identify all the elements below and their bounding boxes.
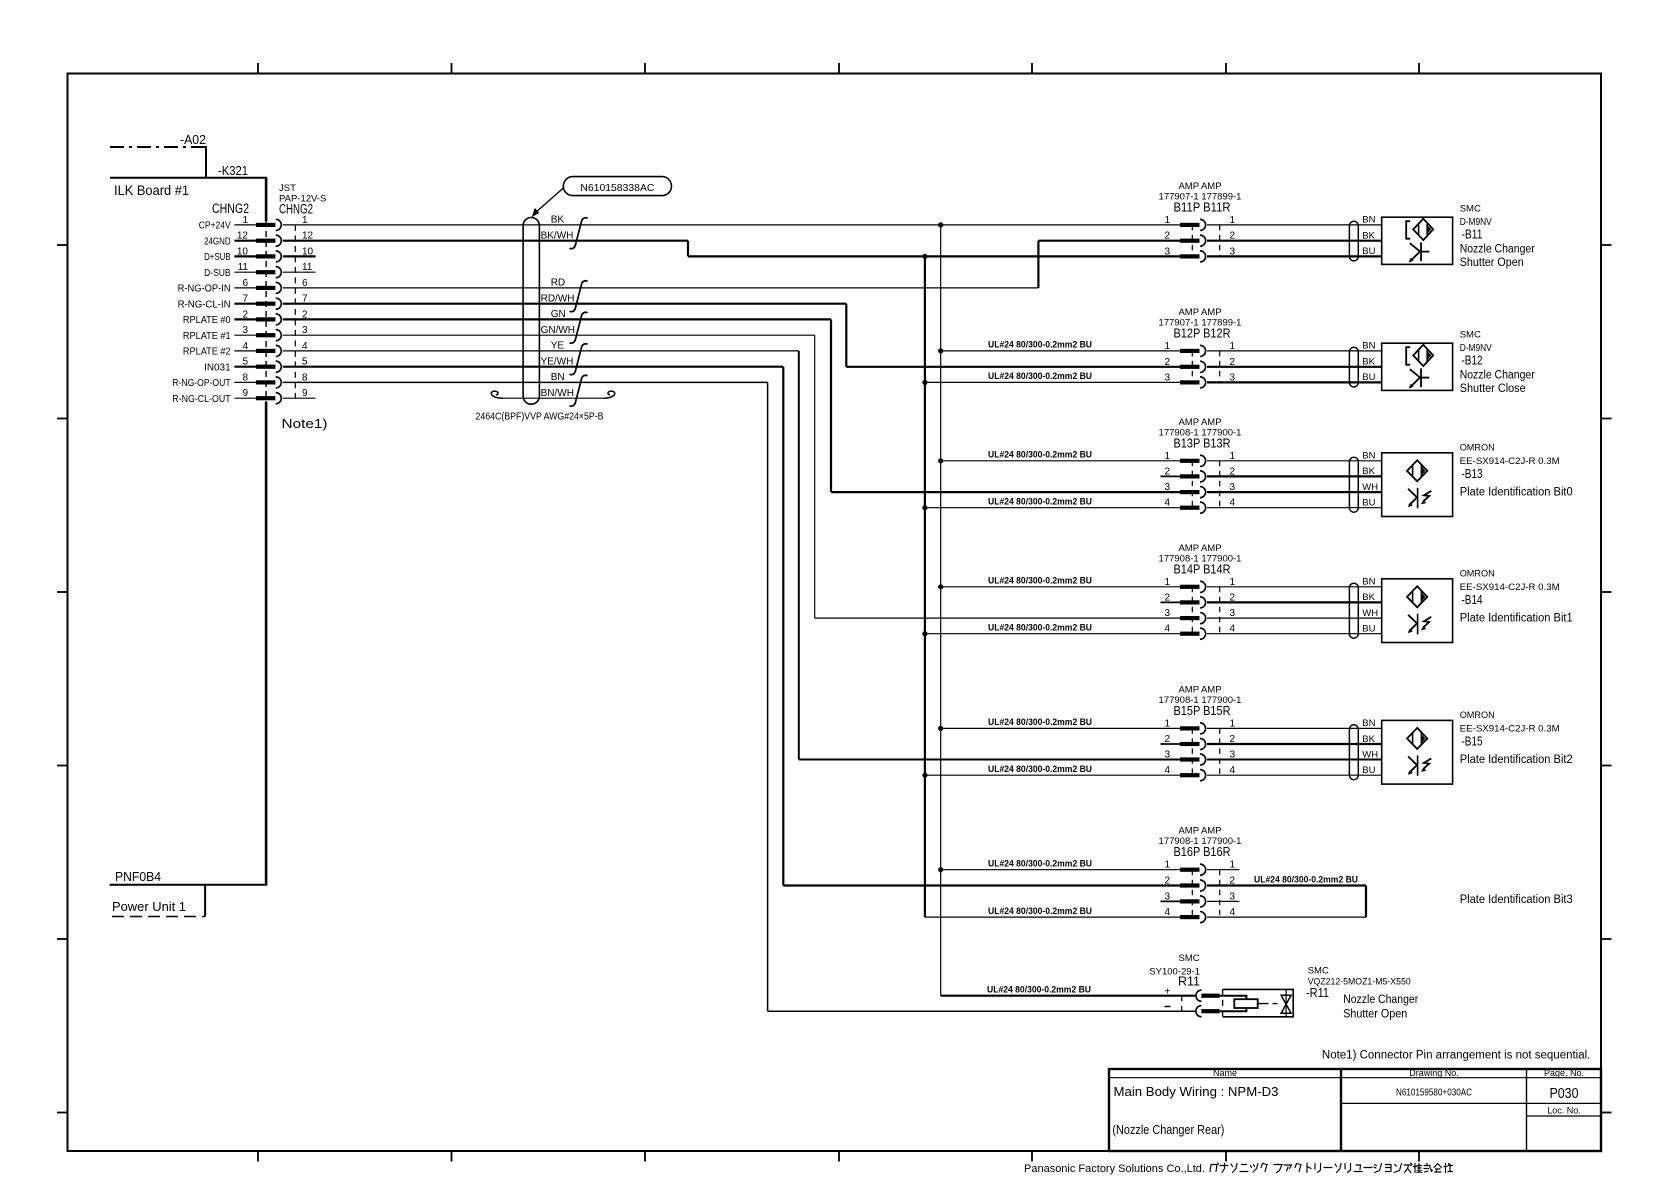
svg-text:Nozzle Changer: Nozzle Changer xyxy=(1343,994,1418,1006)
connector B12P/B12R pin 3 xyxy=(1164,372,1235,388)
svg-text:4: 4 xyxy=(1230,765,1236,776)
svg-text:1: 1 xyxy=(1230,451,1236,462)
junction dot bus 24GND to B13 pin4 xyxy=(922,505,927,510)
svg-text:6: 6 xyxy=(302,278,308,289)
svg-text:OMRON: OMRON xyxy=(1460,443,1495,454)
svg-text:1: 1 xyxy=(1230,718,1236,729)
connector B14P/B14R pin 4 xyxy=(1164,624,1235,640)
wire bus to B16 pin1 xyxy=(941,869,1180,871)
connector B14R R-side dashed mating line xyxy=(1219,587,1221,634)
wire bus to B13 pin4 xyxy=(925,507,1180,509)
svg-text:-B13: -B13 xyxy=(1462,467,1483,481)
connector B15R R-side dashed mating line xyxy=(1219,728,1221,775)
svg-text:AMP AMP: AMP AMP xyxy=(1178,181,1221,192)
svg-text:P030: P030 xyxy=(1550,1086,1579,1102)
svg-text:4: 4 xyxy=(302,341,308,352)
ILK board right edge (upper) xyxy=(265,178,268,221)
wire BN R-NG-OP-OUT row8 horizontal xyxy=(283,381,768,383)
connector B15P/B15R pin 4 xyxy=(1164,765,1235,781)
svg-text:BN: BN xyxy=(1362,577,1375,588)
svg-text:AMP AMP: AMP AMP xyxy=(1178,307,1221,318)
cable bubble leader arrow xyxy=(535,188,564,214)
svg-text:Name: Name xyxy=(1213,1068,1237,1078)
wire BN/WH unterminated cable segment xyxy=(502,397,604,399)
svg-text:2: 2 xyxy=(242,309,248,320)
junction dot bus CP+24V to B13 pin1 xyxy=(938,458,943,463)
sensor B14 photo sensor icon xyxy=(1407,586,1431,634)
wire -A02 to -K321 vertical xyxy=(205,146,207,178)
wire B14 pin4 to sensor xyxy=(1207,633,1382,635)
junction dot bus 24GND at B11 pin3 feed xyxy=(922,254,927,259)
svg-text:SMC: SMC xyxy=(1460,204,1481,215)
wire RD/WH to B12 pin2 xyxy=(846,366,1180,368)
valve R11 coil circuit path xyxy=(1220,996,1247,1012)
svg-text:2: 2 xyxy=(1164,876,1170,887)
connector B14P P-side dashed line xyxy=(1191,587,1193,634)
wire GN RPLATE #0 row2 horizontal xyxy=(283,318,831,320)
svg-text:10: 10 xyxy=(302,246,314,257)
sensor B13 photo sensor icon xyxy=(1407,460,1431,508)
svg-text:-R11: -R11 xyxy=(1306,986,1329,1000)
sensor B11 cable sheath capsule xyxy=(1349,221,1358,261)
wire YE to B15 pin3 xyxy=(799,759,1180,761)
connector B15P/B15R pin 2 xyxy=(1161,734,1236,750)
wire YE jog down to B15 pin3 level xyxy=(798,351,800,760)
svg-text:3: 3 xyxy=(1164,891,1170,902)
twisted pair mark RD pair xyxy=(570,281,588,312)
svg-text:4: 4 xyxy=(242,341,248,352)
wire YE/WH IN031 row5 horizontal xyxy=(283,366,784,368)
connector CHNG2 pin 7 (R-NG-CL-IN) xyxy=(178,294,308,311)
svg-text:WH: WH xyxy=(1362,749,1378,760)
connector B16P/B16R pin 1 xyxy=(1164,860,1235,876)
sensor B15 text block xyxy=(1460,710,1573,766)
twisted pair mark YE pair xyxy=(570,344,588,375)
svg-text:-K321: -K321 xyxy=(218,164,248,178)
svg-text:GN/WH: GN/WH xyxy=(541,325,575,336)
connector B14P header labels xyxy=(1159,543,1242,577)
connector B14P/B14R pin 2 xyxy=(1161,592,1236,608)
svg-text:10: 10 xyxy=(237,246,249,257)
ILK board edge dashed through connector CHNG2 xyxy=(265,221,267,402)
svg-text:-B12: -B12 xyxy=(1462,354,1483,368)
valve R11 valve bowtie symbol xyxy=(1281,995,1291,1013)
svg-text:UL#24 80/300-0.2mm2 BU: UL#24 80/300-0.2mm2 BU xyxy=(988,859,1092,870)
connector CHNG2 pin 11 (D-SUB) xyxy=(204,262,316,279)
valve R11 solenoid coil rectangle xyxy=(1234,999,1257,1008)
svg-text:7: 7 xyxy=(242,294,248,305)
svg-text:11: 11 xyxy=(302,262,313,273)
svg-text:4: 4 xyxy=(1164,624,1170,635)
svg-text:D-M9NV: D-M9NV xyxy=(1460,216,1492,228)
valve R11 connector header labels xyxy=(1149,953,1200,989)
valve R11 minus socket arc xyxy=(1196,1006,1202,1017)
svg-text:IN031: IN031 xyxy=(204,362,231,373)
svg-text:EE-SX914-C2J-R 0.3M: EE-SX914-C2J-R 0.3M xyxy=(1460,724,1560,735)
twisted pair mark GN pair xyxy=(570,312,588,343)
wire B15 pin3 to sensor xyxy=(1207,759,1382,761)
svg-text:4: 4 xyxy=(1164,498,1170,509)
svg-text:1: 1 xyxy=(1164,451,1170,462)
title block xyxy=(1109,1068,1601,1151)
ILK Board #1 top edge wire xyxy=(110,177,267,179)
wire BN jog down to R11 minus level xyxy=(767,382,769,1011)
sensor B13 text block xyxy=(1460,443,1573,499)
svg-text:3: 3 xyxy=(1164,246,1170,257)
wire bus to B13 pin1 xyxy=(941,460,1180,462)
connector B13P P-side dashed line xyxy=(1191,461,1193,508)
svg-text:JST: JST xyxy=(279,183,296,194)
sensor B15 body box xyxy=(1382,720,1453,784)
svg-text:CHNG2: CHNG2 xyxy=(279,202,313,217)
svg-text:SMC: SMC xyxy=(1178,953,1199,964)
svg-text:WH: WH xyxy=(1362,482,1378,493)
connector B15P header labels xyxy=(1159,684,1242,718)
valve R11 plus socket arc xyxy=(1196,990,1202,1001)
svg-text:BU: BU xyxy=(1362,624,1375,635)
connector CHNG2 pin 9 (R-NG-CL-OUT) xyxy=(172,388,315,405)
wire GN/WH jog down to B14 pin3 level xyxy=(814,335,816,618)
svg-text:BN: BN xyxy=(1362,215,1375,226)
connector B12P/B12R pin 1 xyxy=(1164,341,1235,357)
wire B12 pin1 to sensor xyxy=(1207,350,1382,352)
sensor B15 photo sensor icon xyxy=(1407,728,1431,776)
wire YE/WH jog down to B16 pin2 level xyxy=(782,367,784,886)
wire B14 pin1 to sensor xyxy=(1207,586,1382,588)
valve R11 plus pin bar xyxy=(1201,994,1219,998)
svg-text:BK: BK xyxy=(1362,231,1375,242)
wire B12 pin2 to sensor xyxy=(1207,366,1382,368)
svg-text:Plate Identification Bit2: Plate Identification Bit2 xyxy=(1460,754,1573,766)
svg-text:B15P B15R: B15P B15R xyxy=(1174,704,1231,718)
svg-text:BK: BK xyxy=(1362,734,1375,745)
svg-text:AMP AMP: AMP AMP xyxy=(1178,684,1221,695)
connector B13P/B13R pin 3 xyxy=(1164,482,1235,498)
wire GN/WH to B14 pin3 xyxy=(815,617,1180,619)
sensor B14 text block xyxy=(1460,569,1573,625)
wire B15 pin2 to sensor xyxy=(1207,743,1382,745)
connector B13P/B13R pin 4 xyxy=(1164,498,1235,514)
svg-text:+: + xyxy=(1165,987,1171,998)
valve R11 minus pin bar xyxy=(1201,1009,1219,1013)
wire B11 pin3 to sensor xyxy=(1207,255,1382,257)
svg-text:UL#24 80/300-0.2mm2 BU: UL#24 80/300-0.2mm2 BU xyxy=(988,717,1092,728)
wire YE RPLATE #2 row4 horizontal xyxy=(283,350,799,352)
svg-text:UL#24 80/300-0.2mm2 BU: UL#24 80/300-0.2mm2 BU xyxy=(988,450,1092,461)
wire bus to B12 pin1 xyxy=(941,350,1180,352)
svg-text:11: 11 xyxy=(238,262,249,273)
wire BK/WH 24GND row12 horizontal xyxy=(283,240,688,242)
valve R11 minus sign xyxy=(1165,1006,1171,1008)
svg-text:9: 9 xyxy=(242,388,248,399)
svg-text:UL#24 80/300-0.2mm2 BU: UL#24 80/300-0.2mm2 BU xyxy=(987,985,1091,996)
svg-text:AMP AMP: AMP AMP xyxy=(1178,543,1221,554)
svg-text:AMP AMP: AMP AMP xyxy=(1178,826,1221,837)
sensor B13 body box xyxy=(1382,453,1453,517)
valve R11 body box dashed left edge xyxy=(1222,989,1224,1016)
cable sheath capsule xyxy=(523,218,539,405)
svg-text:UL#24 80/300-0.2mm2 BU: UL#24 80/300-0.2mm2 BU xyxy=(988,576,1092,587)
wire GN/WH RPLATE #1 row3 horizontal xyxy=(283,334,815,336)
svg-text:24GND: 24GND xyxy=(204,236,231,247)
wire RD R-NG-OP-IN row6 horizontal xyxy=(283,287,1039,289)
wire RD/WH jog down to B12 pin2 level xyxy=(845,304,847,367)
valve R11 actuation dashed link xyxy=(1258,1003,1264,1005)
svg-text:-B11: -B11 xyxy=(1462,228,1483,242)
svg-text:2: 2 xyxy=(1164,231,1170,242)
wire bus to B15 pin1 xyxy=(941,727,1180,729)
valve R11 body box xyxy=(1223,989,1294,1016)
svg-text:Shutter Open: Shutter Open xyxy=(1460,257,1524,269)
svg-text:BN: BN xyxy=(551,372,565,383)
svg-text:1: 1 xyxy=(1164,341,1170,352)
svg-text:R11: R11 xyxy=(1178,975,1200,989)
svg-text:B12P B12R: B12P B12R xyxy=(1174,326,1231,340)
svg-text:R-NG-CL-OUT: R-NG-CL-OUT xyxy=(172,394,230,405)
wire RD jog up to B11 pin2 level xyxy=(1037,241,1039,288)
sensor B11 reed switch icon xyxy=(1406,219,1433,263)
connector CHNG2 pin 10 (D+SUB) xyxy=(204,246,316,263)
sensor B11 text block xyxy=(1460,204,1535,270)
sensor B13 cable sheath capsule xyxy=(1349,457,1358,512)
bus CP+24V corner to R11 plus xyxy=(941,995,1195,997)
connector CHNG2 pin 1 (CP+24V) xyxy=(199,215,308,232)
wire B13 pin1 to sensor xyxy=(1207,460,1382,462)
svg-text:1: 1 xyxy=(1230,577,1236,588)
wire BK/WH 24GND jog down xyxy=(687,241,689,257)
svg-text:RD: RD xyxy=(551,278,565,289)
connector CHNG2 R-side dashed mating line xyxy=(294,225,296,398)
sensor B15 cable sheath capsule xyxy=(1349,725,1358,780)
PNF0B4 board bottom edge xyxy=(110,884,268,886)
junction dot bus 24GND to B14 pin4 xyxy=(922,631,927,636)
wire GN jog down to B13 pin3 level xyxy=(830,319,832,492)
svg-text:3: 3 xyxy=(302,325,308,336)
svg-text:3: 3 xyxy=(1164,750,1170,761)
Power Unit 1 underline (dashed) xyxy=(112,916,205,918)
wire bus to B14 pin4 xyxy=(925,633,1180,635)
svg-text:Drawing No.: Drawing No. xyxy=(1409,1068,1459,1078)
svg-text:1: 1 xyxy=(302,215,308,226)
wire B16 pin2 loop out xyxy=(1207,884,1366,886)
wire B11 pin2 to sensor xyxy=(1207,240,1382,242)
ILK board right edge (lower) xyxy=(265,402,268,885)
wire GN to B13 pin3 xyxy=(831,491,1180,493)
bus 24GND corner to B16 pin4 xyxy=(925,916,1180,918)
wire B12 pin3 to sensor xyxy=(1207,381,1382,383)
svg-text:RPLATE #1: RPLATE #1 xyxy=(183,331,231,342)
junction dot bus CP+24V to B16 pin1 xyxy=(938,867,943,872)
wire bus to B15 pin4 xyxy=(925,774,1180,776)
connector B16P P-side dashed line xyxy=(1191,870,1193,917)
svg-text:4: 4 xyxy=(1230,624,1236,635)
sensor B14 body box xyxy=(1382,579,1453,643)
wire B11 pin1 to sensor xyxy=(1207,224,1382,226)
svg-text:B13P B13R: B13P B13R xyxy=(1174,436,1231,450)
wire B16 loop return to pin4 xyxy=(1207,916,1366,918)
svg-text:R-NG-OP-IN: R-NG-OP-IN xyxy=(178,284,231,295)
svg-text:BU: BU xyxy=(1362,498,1375,509)
wire bus to B12 pin3 xyxy=(925,381,1180,383)
svg-text:BU: BU xyxy=(1362,246,1375,257)
svg-text:OMRON: OMRON xyxy=(1460,710,1495,721)
svg-text:4: 4 xyxy=(1164,765,1170,776)
svg-text:1: 1 xyxy=(1164,577,1170,588)
connector B15P/B15R pin 3 xyxy=(1164,750,1235,766)
sensor B14 cable sheath capsule xyxy=(1349,583,1358,638)
wire B13 pin4 to sensor xyxy=(1207,507,1382,509)
twisted pair mark BK pair xyxy=(570,218,588,249)
connector B11P/B11R pin 1 xyxy=(1164,215,1235,231)
svg-text:BK: BK xyxy=(1362,466,1375,477)
connector B16R R-side dashed mating line xyxy=(1219,870,1221,917)
svg-text:SMC: SMC xyxy=(1308,966,1329,977)
connector B13R R-side dashed mating line xyxy=(1219,461,1221,508)
svg-text:SMC: SMC xyxy=(1460,330,1481,341)
connector B13P header labels xyxy=(1159,417,1242,451)
svg-text:Nozzle Changer: Nozzle Changer xyxy=(1460,370,1535,382)
bus CP+24V vertical (thin) xyxy=(940,225,942,996)
svg-text:Page. No.: Page. No. xyxy=(1544,1068,1584,1078)
svg-text:UL#24 80/300-0.2mm2 BU: UL#24 80/300-0.2mm2 BU xyxy=(1254,874,1358,885)
svg-text:2: 2 xyxy=(1164,592,1170,603)
svg-text:4: 4 xyxy=(1230,498,1236,509)
svg-text:UL#24 80/300-0.2mm2 BU: UL#24 80/300-0.2mm2 BU xyxy=(988,764,1092,775)
svg-text:9: 9 xyxy=(302,388,308,399)
svg-text:3: 3 xyxy=(1230,891,1236,902)
connector B11P P-side dashed line xyxy=(1191,225,1193,257)
svg-text:Plate Identification Bit1: Plate Identification Bit1 xyxy=(1460,612,1573,624)
svg-text:CHNG2: CHNG2 xyxy=(212,201,249,216)
svg-text:-A02: -A02 xyxy=(180,133,206,147)
svg-text:3: 3 xyxy=(1164,608,1170,619)
cable part number bubble N610158338AC xyxy=(563,177,671,196)
svg-text:3: 3 xyxy=(1230,608,1236,619)
svg-text:4: 4 xyxy=(1164,907,1170,918)
connector B11P/B11R pin 2 xyxy=(1164,231,1235,247)
svg-text:N610158338AC: N610158338AC xyxy=(580,182,654,194)
connector CHNG2 JST maker label xyxy=(279,183,326,217)
svg-text:-B15: -B15 xyxy=(1462,735,1483,749)
wire RD/WH R-NG-CL-IN row7 horizontal xyxy=(283,303,847,305)
svg-text:BN: BN xyxy=(1362,718,1375,729)
svg-text:RPLATE #2: RPLATE #2 xyxy=(183,347,231,358)
svg-text:BK: BK xyxy=(1362,357,1375,368)
wire B15 pin4 to sensor xyxy=(1207,774,1382,776)
svg-text:B11P B11R: B11P B11R xyxy=(1174,200,1231,214)
node -A02 dash-dot branch wire xyxy=(110,146,206,148)
connector CHNG2 pin 2 (RPLATE #0) xyxy=(183,309,308,326)
svg-text:ILK Board #1: ILK Board #1 xyxy=(114,182,189,198)
svg-text:1: 1 xyxy=(242,215,248,226)
svg-text:BN: BN xyxy=(1362,451,1375,462)
connector B12P P-side dashed line xyxy=(1191,351,1193,383)
svg-text:Note1): Note1) xyxy=(282,416,328,431)
wire BN/WH left end curl xyxy=(491,391,502,398)
svg-text:2: 2 xyxy=(1164,466,1170,477)
junction dot bus 24GND to B15 pin4 xyxy=(922,773,927,778)
svg-text:BN: BN xyxy=(1362,341,1375,352)
svg-text:12: 12 xyxy=(237,231,249,242)
sensor B12 text block xyxy=(1460,330,1535,396)
svg-text:1: 1 xyxy=(1230,341,1236,352)
wire BK/WH 24GND to B11 pin3 xyxy=(688,255,1180,257)
wire B14 pin2 to sensor xyxy=(1207,601,1382,603)
wire BK CP+24V row1 CHNG2 pin1 to B11 pin1 xyxy=(283,224,1180,226)
wire BN/WH right end curl xyxy=(604,391,615,398)
svg-text:BU: BU xyxy=(1362,765,1375,776)
connector B13P/B13R pin 1 xyxy=(1164,451,1235,467)
connector CHNG2 pin 5 (IN031) xyxy=(204,357,308,374)
svg-text:UL#24 80/300-0.2mm2 BU: UL#24 80/300-0.2mm2 BU xyxy=(988,623,1092,634)
connector CHNG2 pin 8 (R-NG-OP-OUT) xyxy=(172,372,308,389)
svg-text:D-SUB: D-SUB xyxy=(204,268,231,279)
connector B16P/B16R pin 3 xyxy=(1161,891,1236,907)
wire bus to B14 pin1 xyxy=(941,586,1180,588)
svg-text:Nozzle Changer: Nozzle Changer xyxy=(1460,244,1535,256)
connector B16P/B16R pin 2 xyxy=(1164,876,1235,892)
connector B11P header labels xyxy=(1159,181,1242,215)
svg-text:8: 8 xyxy=(242,372,248,383)
svg-text:D-M9NV: D-M9NV xyxy=(1460,342,1492,354)
svg-text:Loc. No.: Loc. No. xyxy=(1547,1106,1581,1116)
svg-text:WH: WH xyxy=(1362,608,1378,619)
svg-text:UL#24 80/300-0.2mm2 BU: UL#24 80/300-0.2mm2 BU xyxy=(988,340,1092,351)
svg-text:UL#24 80/300-0.2mm2 BU: UL#24 80/300-0.2mm2 BU xyxy=(988,497,1092,508)
connector CHNG2 pin 12 (24GND) xyxy=(204,231,313,248)
sensor B11 body box xyxy=(1382,217,1453,264)
svg-text:3: 3 xyxy=(242,325,248,336)
twisted pair mark BN pair xyxy=(570,375,588,406)
svg-text:4: 4 xyxy=(1230,907,1236,918)
valve R11 connector dashed mating line xyxy=(1181,996,1183,1012)
connector B11P/B11R pin 3 xyxy=(1164,246,1235,262)
svg-text:(Nozzle Changer Rear): (Nozzle Changer Rear) xyxy=(1112,1123,1224,1137)
wire B15 pin1 to sensor xyxy=(1207,727,1382,729)
sensor B12 body box xyxy=(1382,343,1453,390)
svg-text:3: 3 xyxy=(1164,482,1170,493)
wire B13 pin3 to sensor xyxy=(1207,491,1382,493)
valve R11 text block xyxy=(1306,966,1418,1021)
svg-text:D+SUB: D+SUB xyxy=(204,252,231,263)
svg-text:BU: BU xyxy=(1362,372,1375,383)
wire B14 pin3 to sensor xyxy=(1207,617,1382,619)
connector B14P/B14R pin 1 xyxy=(1164,577,1235,593)
junction dot bus CP+24V to B15 pin1 xyxy=(938,726,943,731)
svg-text:1: 1 xyxy=(1230,860,1236,871)
connector B15P/B15R pin 1 xyxy=(1164,718,1235,734)
svg-text:Note1) Connector Pin arrangeme: Note1) Connector Pin arrangement is not … xyxy=(1322,1050,1591,1062)
svg-text:R-NG-OP-OUT: R-NG-OP-OUT xyxy=(172,378,230,389)
svg-text:5: 5 xyxy=(242,357,248,368)
wire B16 pin3 right stub xyxy=(1207,900,1240,902)
wire BN to R11 minus xyxy=(768,1010,1195,1012)
wire B16 loop vertical xyxy=(1365,886,1367,918)
bus 24GND vertical (thick) xyxy=(924,256,926,917)
wire B16 pin1 right stub xyxy=(1207,869,1240,871)
footer company name japanese xyxy=(1210,1163,1453,1173)
svg-text:2: 2 xyxy=(1164,734,1170,745)
junction dot bus CP+24V to B14 pin1 xyxy=(938,584,943,589)
connector B12R R-side dashed mating line xyxy=(1219,351,1221,383)
connector B16P/B16R pin 4 xyxy=(1164,907,1235,923)
svg-text:2: 2 xyxy=(1164,357,1170,368)
connector CHNG2 pin 3 (RPLATE #1) xyxy=(183,325,308,342)
svg-text:Shutter Open: Shutter Open xyxy=(1343,1009,1407,1021)
svg-text:EE-SX914-C2J-R 0.3M: EE-SX914-C2J-R 0.3M xyxy=(1460,456,1560,467)
svg-text:-B14: -B14 xyxy=(1462,593,1483,607)
svg-text:Plate Identification Bit0: Plate Identification Bit0 xyxy=(1460,486,1573,498)
